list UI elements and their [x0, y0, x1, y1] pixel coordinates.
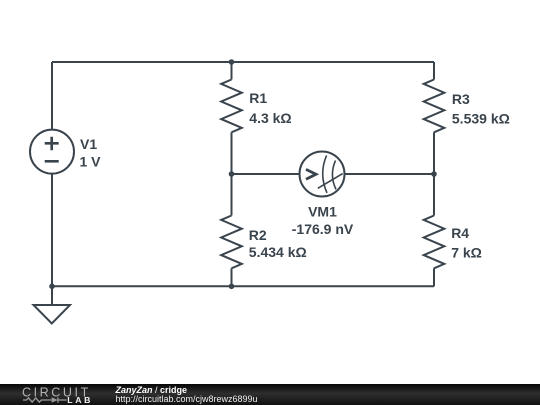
wire: top rail from V1 to R3 — [52, 61, 434, 63]
VM1 meter scale arc 1 — [323, 155, 327, 193]
svg-text:5.539 kΩ: 5.539 kΩ — [452, 111, 510, 127]
wire: bottom rail — [52, 285, 434, 287]
svg-text:VM1: VM1 — [308, 204, 337, 220]
svg-text:-176.9 nV: -176.9 nV — [292, 221, 354, 237]
ground symbol stem — [51, 286, 53, 305]
resistor R4 zigzag — [424, 216, 445, 269]
VM1 needle — [318, 174, 343, 189]
svg-text:7 kΩ: 7 kΩ — [451, 244, 482, 260]
junction node: bottom rail / ground — [49, 284, 55, 290]
svg-text:LAB: LAB — [67, 395, 90, 405]
CircuitLab logo diode triangle — [52, 397, 58, 403]
svg-text:R1: R1 — [249, 90, 267, 106]
wire: middle rail right (VM1 to node) — [345, 173, 435, 175]
resistor R2 zigzag — [221, 216, 242, 269]
V1 minus sign — [45, 160, 59, 163]
svg-text:V1: V1 — [80, 136, 97, 152]
wire: R4 top lead — [433, 174, 435, 216]
svg-text:4.3 kΩ: 4.3 kΩ — [249, 110, 291, 126]
junction node: top rail / R1 — [229, 59, 235, 65]
wire: R4 bottom lead — [433, 268, 435, 286]
V1 plus sign — [45, 137, 59, 150]
wire: R3 bottom lead — [433, 132, 435, 174]
svg-text:R2: R2 — [249, 227, 267, 243]
wire: middle rail left (node to VM1) — [232, 173, 300, 175]
junction node: middle rail left — [229, 171, 235, 177]
wire: left branch V1 top lead — [51, 62, 53, 130]
svg-text:R4: R4 — [451, 225, 469, 241]
resistor R3 zigzag — [424, 80, 445, 133]
VM1 meter scale arc 2 — [332, 161, 336, 190]
wire: left branch V1 bottom lead — [51, 174, 53, 287]
svg-text:http://circuitlab.com/cjw8rewz: http://circuitlab.com/cjw8rewz6899u — [116, 394, 258, 404]
wire: R3 top lead — [433, 62, 435, 80]
ground symbol triangle — [34, 305, 71, 323]
junction node: middle rail right — [431, 171, 437, 177]
wire: R1 top lead — [231, 62, 233, 80]
junction node: bottom rail / R2 — [229, 284, 235, 290]
footer bar — [0, 384, 540, 405]
wire: R2 bottom lead — [231, 268, 233, 286]
wire: R2 top lead — [231, 174, 233, 216]
VM1 input chevron — [306, 169, 316, 179]
svg-text:5.434 kΩ: 5.434 kΩ — [249, 244, 307, 260]
resistor R1 zigzag — [221, 80, 242, 133]
svg-text:1 V: 1 V — [80, 154, 102, 170]
svg-text:R3: R3 — [452, 91, 470, 107]
CircuitLab logo resistor-diode symbol — [23, 397, 67, 402]
wire: R1 bottom lead — [231, 132, 233, 174]
voltage source V1 circle body — [30, 130, 74, 174]
voltmeter VM1 circle body — [300, 152, 345, 197]
